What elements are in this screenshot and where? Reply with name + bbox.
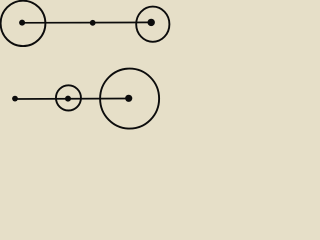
node dot bottom-middle (65, 96, 71, 102)
node dot top-middle (90, 20, 96, 26)
node dot top-right (148, 19, 155, 26)
node dot top-left (19, 20, 25, 26)
node dot bottom-right (125, 95, 132, 102)
circle top-right (136, 7, 169, 42)
circle top-left (1, 1, 46, 46)
node dot bottom-left (12, 96, 18, 102)
wire bottom horizontal (15, 98, 129, 101)
circle bottom-middle small (56, 85, 81, 110)
wire top horizontal (22, 21, 151, 23)
circle bottom-right large (100, 69, 159, 129)
